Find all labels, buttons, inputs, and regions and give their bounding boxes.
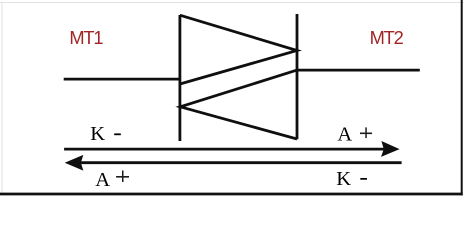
svg-text:MT1: MT1 — [69, 27, 103, 48]
diac D1 right bar MT2 — [296, 14, 299, 139]
wire MT1 lead — [64, 78, 180, 81]
arrowhead left — [65, 155, 84, 171]
wire top border (light) — [0, 2, 464, 4]
wire current arrow left — [81, 161, 402, 164]
wire right border — [461, 0, 463, 196]
diac D1 bottom triangle — [180, 70, 297, 139]
wire bottom border — [0, 193, 463, 196]
wire MT2 lead — [297, 69, 420, 72]
node A+ lower label plus sign — [116, 176, 129, 178]
arrowhead right — [381, 141, 400, 157]
svg-text:K: K — [336, 168, 351, 190]
wire current arrow right — [64, 148, 384, 151]
svg-text:K: K — [90, 123, 105, 145]
node A+ upper label plus sign — [360, 133, 372, 135]
wire left border (light) — [1, 2, 3, 194]
svg-text:MT2: MT2 — [370, 27, 404, 48]
svg-text:A: A — [337, 124, 352, 146]
diac D1 left bar MT1 — [178, 15, 181, 141]
node K- lower label minus sign — [360, 178, 367, 180]
svg-text:A: A — [95, 169, 110, 191]
node K- upper label minus sign — [114, 133, 121, 135]
diac D1 top triangle — [180, 15, 297, 84]
